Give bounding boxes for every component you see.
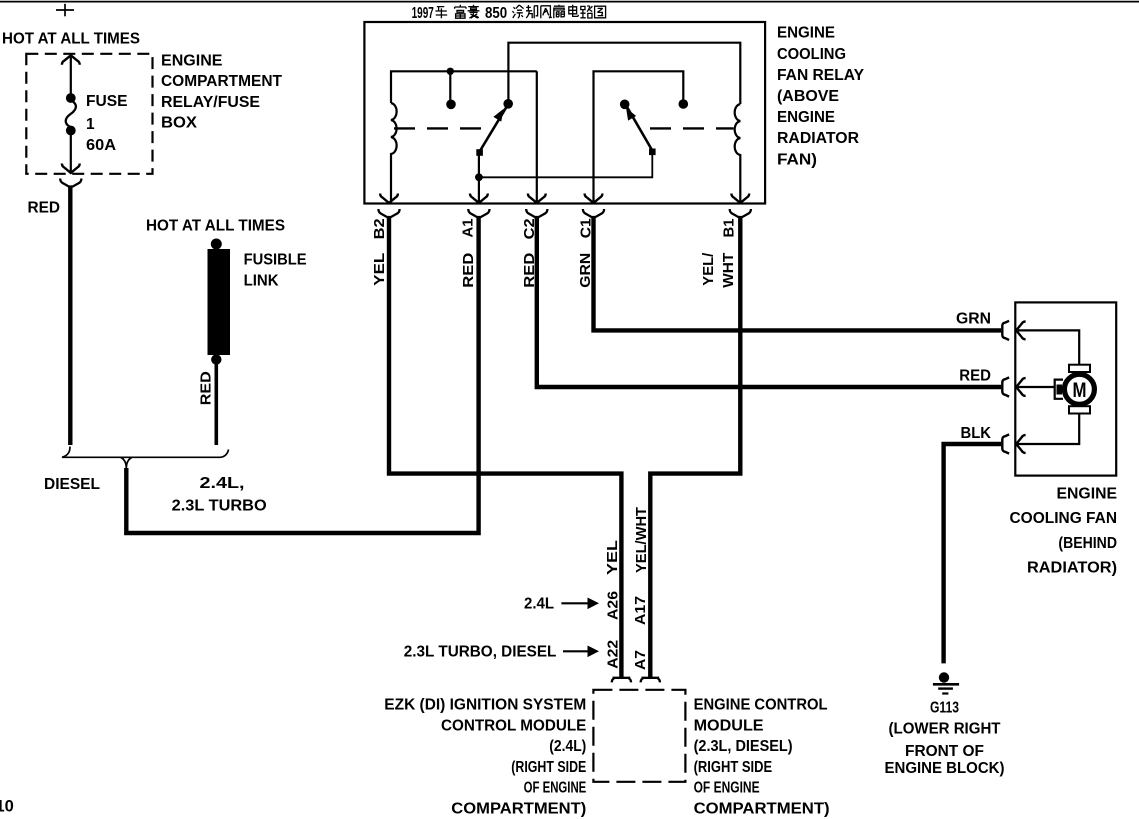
svg-text:BLK: BLK bbox=[961, 425, 992, 442]
svg-text:RED: RED bbox=[460, 253, 477, 288]
svg-text:COMPARTMENT): COMPARTMENT) bbox=[694, 801, 830, 818]
wire right inner run bbox=[594, 71, 684, 203]
ground G113 bbox=[933, 672, 959, 693]
svg-text:YEL: YEL bbox=[371, 253, 388, 286]
svg-text:ENGINE: ENGINE bbox=[777, 25, 835, 42]
title hanzi 冷 bbox=[512, 5, 523, 18]
title hanzi 豪 bbox=[468, 5, 480, 18]
wire C1 GRN to fan motor bbox=[594, 217, 1002, 331]
label FUSIBLE LINK bbox=[244, 251, 307, 289]
relay coil K1 (left) bbox=[391, 103, 397, 203]
svg-text:B1: B1 bbox=[721, 219, 738, 238]
contact dot (switch top) bbox=[503, 99, 513, 109]
svg-text:A1: A1 bbox=[460, 219, 477, 238]
title hanzi 电 bbox=[569, 5, 578, 17]
wire RED below fusible link bbox=[215, 363, 219, 445]
dashed link right bbox=[650, 127, 734, 129]
svg-text:FAN RELAY: FAN RELAY bbox=[777, 67, 865, 84]
svg-text:YEL/WHT: YEL/WHT bbox=[633, 507, 650, 573]
crosshair mark bbox=[56, 4, 74, 16]
svg-text:COMPARTMENT): COMPARTMENT) bbox=[451, 801, 586, 818]
connector GRN female bbox=[1002, 321, 1009, 340]
svg-text:A22: A22 bbox=[605, 640, 622, 669]
relay coil K2 (right) bbox=[735, 104, 741, 203]
switch arm right bbox=[627, 107, 652, 151]
arrow down to fuse box bottom bbox=[62, 164, 80, 173]
pin C1 arrow bbox=[585, 194, 603, 203]
connector C1 bbox=[583, 209, 604, 217]
svg-text:BOX: BOX bbox=[161, 115, 198, 132]
svg-text:(LOWER RIGHT: (LOWER RIGHT bbox=[889, 720, 1002, 737]
module pin socket A17/A7 bbox=[641, 678, 660, 683]
module pin socket A26/A22 bbox=[612, 678, 631, 683]
title hanzi 富 bbox=[455, 5, 466, 18]
label ENGINE COMPARTMENT RELAY/FUSE BOX bbox=[161, 52, 283, 131]
wire B1 YEL/WHT to module bbox=[650, 217, 740, 679]
arrow up into fuse box top bbox=[62, 55, 80, 64]
svg-text:(BEHIND: (BEHIND bbox=[1058, 535, 1117, 552]
fan motor box bbox=[1015, 302, 1116, 475]
svg-text:1997: 1997 bbox=[412, 5, 434, 22]
contact dot bbox=[446, 100, 456, 110]
switch arrowhead bbox=[493, 106, 507, 121]
label G113 (LOWER RIGHT FRONT OF ENGINE BLOCK) bbox=[885, 700, 1005, 777]
svg-text:2.4L,: 2.4L, bbox=[200, 475, 245, 492]
fuse F1 wire bbox=[70, 55, 72, 173]
svg-text:EZK (DI) IGNITION SYSTEM: EZK (DI) IGNITION SYSTEM bbox=[384, 697, 586, 714]
label ENGINE CONTROL MODULE (2.3L, DIESEL) bbox=[694, 697, 830, 818]
wire top (switch to right coil) bbox=[508, 43, 740, 104]
switch pivot square right bbox=[649, 149, 656, 156]
svg-text:OF ENGINE: OF ENGINE bbox=[524, 780, 587, 797]
svg-text:RED: RED bbox=[959, 368, 991, 385]
svg-text:A26: A26 bbox=[605, 591, 622, 620]
contact dot right fixed bbox=[679, 99, 689, 109]
svg-text:1: 1 bbox=[86, 116, 95, 133]
wire A1 below pivot bbox=[478, 155, 480, 203]
svg-text:CONTROL MODULE: CONTROL MODULE bbox=[441, 717, 586, 734]
svg-text:YEL: YEL bbox=[604, 540, 621, 575]
dashed link left bbox=[394, 127, 491, 129]
wire C2 vertical bbox=[536, 71, 538, 203]
relay box outline bbox=[364, 22, 765, 204]
junction dot A1 bbox=[475, 173, 483, 181]
connector B2 bbox=[378, 209, 399, 217]
svg-text:RELAY/FUSE: RELAY/FUSE bbox=[161, 94, 260, 111]
fuse box dashed outline bbox=[26, 54, 152, 174]
title hanzi 路 bbox=[580, 6, 592, 18]
wire from brace to A1 pin bbox=[126, 217, 478, 534]
label ENGINE COOLING FAN (BEHIND RADIATOR) bbox=[1010, 486, 1118, 577]
svg-text:60A: 60A bbox=[86, 137, 116, 154]
switch arm left bbox=[480, 107, 507, 152]
svg-text:FAN): FAN) bbox=[777, 151, 817, 168]
fuse F1 element bbox=[66, 93, 76, 135]
svg-text:ENGINE: ENGINE bbox=[777, 109, 835, 126]
svg-text:DIESEL: DIESEL bbox=[44, 476, 100, 493]
connector RED female bbox=[1002, 377, 1009, 396]
motor wire top bbox=[1018, 330, 1079, 366]
svg-text:FRONT OF: FRONT OF bbox=[905, 743, 984, 760]
wire B2 YEL to module bbox=[389, 217, 621, 679]
svg-text:RED: RED bbox=[198, 371, 215, 405]
connector B1 bbox=[730, 209, 751, 217]
label 2.3L TURBO, DIESEL with arrow bbox=[404, 644, 599, 661]
svg-text:WHT: WHT bbox=[720, 253, 737, 288]
svg-text:LINK: LINK bbox=[244, 272, 280, 289]
pin B2 arrow bbox=[380, 194, 398, 203]
svg-text:ENGINE: ENGINE bbox=[1057, 486, 1118, 503]
connector BLK female bbox=[1002, 434, 1009, 453]
junction dot bbox=[447, 68, 454, 75]
svg-text:2.3L TURBO, DIESEL: 2.3L TURBO, DIESEL bbox=[404, 644, 557, 661]
label EZK (DI) IGNITION SYSTEM CONTROL MODULE bbox=[384, 697, 586, 818]
wire BLK to ground bbox=[944, 444, 1002, 663]
title hanzi 风 bbox=[541, 6, 552, 18]
svg-text:ENGINE: ENGINE bbox=[161, 52, 223, 69]
svg-text:MODULE: MODULE bbox=[694, 717, 764, 734]
wire RED from fuse to diesel brace bbox=[68, 186, 72, 445]
svg-text:10: 10 bbox=[0, 797, 14, 815]
svg-text:B2: B2 bbox=[371, 218, 388, 239]
connector A1 bbox=[468, 209, 489, 217]
pin A1 arrow bbox=[470, 194, 488, 203]
title hanzi 年 bbox=[435, 7, 447, 19]
label FUSE 1 60A bbox=[86, 93, 128, 154]
svg-text:HOT AT ALL TIMES: HOT AT ALL TIMES bbox=[2, 31, 140, 48]
motor wire mid bbox=[1018, 386, 1055, 388]
brace under diesel wires bbox=[62, 447, 229, 469]
wire left coil top run bbox=[391, 71, 537, 103]
title hanzi 图 bbox=[595, 6, 606, 18]
switch pivot square bbox=[476, 149, 483, 156]
svg-text:G113: G113 bbox=[930, 700, 959, 717]
svg-text:(RIGHT SIDE: (RIGHT SIDE bbox=[511, 759, 586, 776]
svg-text:COMPARTMENT: COMPARTMENT bbox=[161, 73, 283, 90]
pin B1 arrow bbox=[731, 194, 749, 203]
svg-text:(ABOVE: (ABOVE bbox=[777, 88, 839, 105]
connector RED male arrow bbox=[1016, 378, 1025, 396]
top border line bbox=[0, 1, 1139, 3]
connector GRN male arrow bbox=[1016, 322, 1025, 340]
svg-text:ENGINE CONTROL: ENGINE CONTROL bbox=[694, 697, 828, 714]
switch arrowhead right bbox=[622, 105, 636, 120]
svg-text:OF ENGINE: OF ENGINE bbox=[694, 780, 760, 797]
svg-text:COOLING: COOLING bbox=[777, 46, 846, 63]
svg-text:YEL/: YEL/ bbox=[700, 252, 717, 286]
label 2.4L with arrow bbox=[524, 596, 599, 613]
title hanzi 却 bbox=[526, 5, 538, 18]
contact dot right switch bbox=[620, 100, 630, 110]
connector BLK male arrow bbox=[1016, 435, 1025, 453]
svg-text:A7: A7 bbox=[632, 650, 649, 670]
svg-text:HOT AT ALL TIMES: HOT AT ALL TIMES bbox=[146, 218, 285, 235]
svg-text:FUSE: FUSE bbox=[86, 93, 128, 110]
fusible link bbox=[208, 239, 231, 365]
label ENGINE COOLING FAN RELAY (ABOVE ENGINE RADIATOR FAN) bbox=[777, 25, 865, 169]
svg-text:M: M bbox=[1073, 379, 1087, 402]
svg-text:RADIATOR): RADIATOR) bbox=[1027, 560, 1117, 577]
svg-text:FUSIBLE: FUSIBLE bbox=[244, 251, 307, 268]
wire link between switches bbox=[479, 155, 652, 177]
title hanzi 扇 bbox=[554, 5, 565, 18]
svg-text:GRN: GRN bbox=[956, 310, 991, 327]
wire stub to left fixed contact bbox=[449, 71, 451, 100]
motor wire bottom bbox=[1018, 412, 1079, 444]
svg-text:850: 850 bbox=[485, 5, 507, 22]
svg-text:RED: RED bbox=[28, 200, 61, 217]
svg-text:(2.3L, DIESEL): (2.3L, DIESEL) bbox=[694, 738, 793, 755]
svg-text:(2.4L): (2.4L) bbox=[549, 738, 586, 755]
svg-text:A17: A17 bbox=[632, 596, 649, 625]
svg-text:2.4L: 2.4L bbox=[524, 596, 554, 613]
svg-text:(RIGHT SIDE: (RIGHT SIDE bbox=[694, 759, 773, 776]
connector C2 bbox=[526, 209, 547, 217]
svg-text:2.3L TURBO: 2.3L TURBO bbox=[172, 498, 267, 515]
wire C2 RED to fan motor bbox=[537, 217, 1001, 388]
pin C2 arrow bbox=[528, 194, 546, 203]
svg-text:ENGINE BLOCK): ENGINE BLOCK) bbox=[885, 760, 1005, 777]
svg-text:COOLING FAN: COOLING FAN bbox=[1010, 510, 1118, 527]
svg-text:RADIATOR: RADIATOR bbox=[777, 130, 859, 147]
motor M1 bbox=[1055, 365, 1095, 414]
connector below fuse box bbox=[60, 179, 81, 187]
control module dashed box bbox=[593, 690, 685, 782]
